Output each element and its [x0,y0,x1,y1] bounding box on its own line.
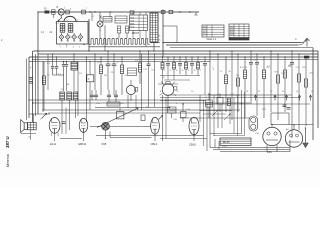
svg-text:EL11: EL11 [50,142,57,146]
svg-text:387 U: 387 U [5,136,10,148]
svg-text:Skala 1:2: Skala 1:2 [207,39,217,41]
svg-text:▌▌ ▌: ▌▌ ▌ [231,33,235,36]
svg-text:1M: 1M [66,84,69,86]
svg-text:2k: 2k [159,40,161,42]
svg-text:CBL1: CBL1 [151,142,158,146]
svg-text:CBL6: CBL6 [189,142,196,146]
svg-text:▌▌▌ ▌▌: ▌▌▌ ▌▌ [223,141,230,144]
svg-text:▌▌ ▌: ▌▌ ▌ [204,33,208,36]
svg-text:2k: 2k [159,36,161,38]
svg-text:Minerva: Minerva [6,154,10,167]
svg-text:6X8: 6X8 [102,142,107,146]
svg-text:220V: 220V [222,146,228,148]
svg-text:EBF11: EBF11 [79,142,88,146]
svg-text:1M: 1M [236,75,239,77]
svg-text:Dr: Dr [205,96,208,99]
svg-text:2M: 2M [104,75,107,77]
